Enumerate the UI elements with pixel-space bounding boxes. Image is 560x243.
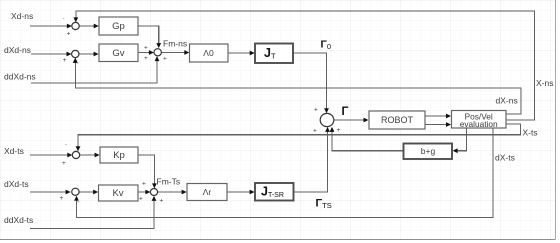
arrowhead into S4 bottom-right from b+g: [330, 127, 335, 132]
svg-text:-: -: [63, 16, 65, 23]
svg-text:Gp: Gp: [112, 21, 125, 32]
summing junction S6: [72, 188, 79, 195]
wire JT-SR to S4 (GammaTS): [294, 131, 328, 192]
arrowhead into S5 left: [67, 153, 72, 158]
wire Xd-ts input: [30, 154, 68, 156]
block Gp: [99, 17, 138, 35]
block JT: [255, 44, 293, 64]
wire S1 to Gp: [79, 25, 94, 27]
svg-text:+: +: [313, 128, 317, 135]
svg-text:Xd-ts: Xd-ts: [4, 146, 24, 156]
svg-text:+: +: [67, 31, 71, 38]
block Kv: [99, 185, 139, 201]
arrowhead into JT-SR: [250, 190, 255, 195]
wire PosVel to b+g: [457, 128, 467, 151]
wire Kp to S7 (down): [138, 155, 154, 184]
svg-text:+: +: [76, 199, 80, 206]
arrowhead into JT: [250, 51, 255, 56]
arrowhead into S4 bottom from GammaTS: [325, 127, 330, 132]
arrowhead into Gp: [94, 24, 99, 29]
summing junction S2: [72, 50, 79, 57]
page border right: [554, 0, 556, 240]
svg-text:+: +: [314, 107, 318, 114]
svg-text:Fm-Ts: Fm-Ts: [157, 177, 181, 187]
block PosVel evaluation: [452, 111, 507, 129]
wire b+g to S4: [332, 131, 404, 150]
svg-text:evaluation: evaluation: [460, 119, 498, 129]
svg-text:dXd-ns: dXd-ns: [4, 45, 31, 55]
wire S4 to ROBOT: [334, 119, 364, 121]
summing junction S7: [150, 189, 157, 196]
wire X-ns feedback loop: [76, 11, 535, 120]
arrowhead into PosVel lower: [446, 122, 451, 127]
svg-text:+: +: [144, 55, 148, 62]
wire S6 to Kv: [79, 191, 94, 193]
block Gv: [99, 44, 138, 62]
svg-text:ddXd-ns: ddXd-ns: [4, 72, 36, 82]
svg-text:-: -: [77, 60, 79, 67]
block JT-SR: [255, 183, 294, 201]
wire dX-ts feedback loop: [77, 128, 494, 218]
arrowhead into L0: [184, 50, 189, 55]
wire ddXd-ns input: [31, 61, 157, 84]
svg-text:Λr: Λr: [203, 187, 212, 197]
block Lambda-r: [187, 184, 227, 201]
svg-text:dX-ts: dX-ts: [495, 153, 515, 163]
wire ddXd-ts input: [30, 201, 154, 229]
svg-text:Xd-ns: Xd-ns: [11, 11, 33, 21]
wire JT to S4 (Gamma0): [293, 53, 327, 109]
svg-text:-: -: [65, 142, 67, 149]
arrowhead into S5 top: [76, 146, 81, 151]
summing junction S5: [72, 151, 79, 158]
block Kp: [100, 147, 138, 163]
svg-text:dX-ns: dX-ns: [496, 96, 518, 106]
svg-text:X-ns: X-ns: [536, 78, 553, 88]
arrowhead into S1 top: [73, 17, 78, 22]
summing junction S3: [154, 49, 161, 56]
arrowhead into S2 left: [67, 52, 72, 57]
arrowhead into S7 left: [145, 190, 150, 195]
wire S7 to Lr: [158, 191, 182, 193]
wire X-ts feedback loop: [78, 124, 521, 147]
svg-text:b+g: b+g: [421, 146, 436, 156]
svg-text:+: +: [63, 57, 67, 64]
arrowhead into Lr: [182, 190, 187, 195]
page border bottom: [0, 239, 556, 241]
arrowhead into b+g right: [453, 148, 458, 153]
arrowhead into S7 bottom: [152, 196, 157, 201]
svg-text:ROBOT: ROBOT: [381, 115, 414, 125]
wire S3 to L0: [161, 52, 184, 54]
arrowhead into S6 bottom: [74, 196, 79, 201]
wire Xd-ns input: [30, 25, 67, 27]
svg-text:X-ts: X-ts: [523, 128, 538, 138]
svg-text:+: +: [337, 127, 341, 134]
arrowhead into Kp: [95, 153, 100, 158]
wire Lr to JT-SR: [227, 191, 250, 193]
arrowhead into S2 bottom: [73, 58, 78, 63]
svg-text:Γ: Γ: [342, 106, 349, 118]
wire ROBOT to PosVel upper: [425, 115, 446, 117]
arrowhead into Gv: [94, 52, 99, 57]
svg-text:+: +: [62, 160, 66, 167]
block b+g: [404, 144, 453, 160]
svg-text:+: +: [163, 56, 167, 63]
svg-text:Gv: Gv: [112, 48, 124, 59]
wire dXd-ns input: [31, 53, 67, 55]
arrowhead into S2 bottom from dX-ns: [73, 58, 78, 63]
block ROBOT: [369, 111, 425, 129]
svg-text:+: +: [60, 195, 64, 202]
block Lambda0: [190, 44, 229, 62]
wire S2 to Gv: [79, 53, 94, 55]
wire Gp to S3 (down): [138, 26, 159, 44]
arrowhead into Kv: [93, 190, 98, 195]
svg-text:+: +: [142, 181, 146, 188]
arrowhead into S7 top: [152, 183, 157, 188]
svg-text:+: +: [139, 196, 143, 203]
wire dXd-ts input: [30, 191, 66, 193]
arrowhead into S1 left: [67, 24, 72, 29]
wire Gv to S3: [138, 52, 149, 54]
svg-text:ddXd-ts: ddXd-ts: [4, 215, 33, 225]
wire L0 to JT: [228, 52, 250, 54]
arrowhead into ROBOT: [364, 118, 369, 123]
svg-text:Kv: Kv: [112, 188, 123, 199]
summing junction S4: [320, 113, 334, 126]
svg-text:dXd-ts: dXd-ts: [4, 179, 29, 189]
svg-text:+: +: [144, 45, 148, 52]
svg-text:Kp: Kp: [113, 150, 125, 161]
arrowhead into S6 left: [66, 190, 71, 195]
wire Kv to S7: [138, 191, 146, 193]
svg-text:Fm-ns: Fm-ns: [163, 39, 187, 49]
wire ROBOT to PosVel lower: [425, 124, 446, 126]
arrowhead into S3 bottom: [155, 56, 160, 61]
arrowhead into PosVel upper: [446, 114, 451, 119]
summing junction S1: [72, 22, 79, 29]
arrowhead into S4 top: [324, 108, 329, 113]
arrowhead into S3 left: [149, 50, 154, 55]
wire S5 to Kp: [80, 154, 95, 156]
wire dX-ns feedback loop: [75, 62, 521, 114]
svg-text:+: +: [160, 198, 164, 205]
arrowhead into S3 top: [156, 43, 161, 48]
svg-text:Λ0: Λ0: [203, 48, 214, 58]
